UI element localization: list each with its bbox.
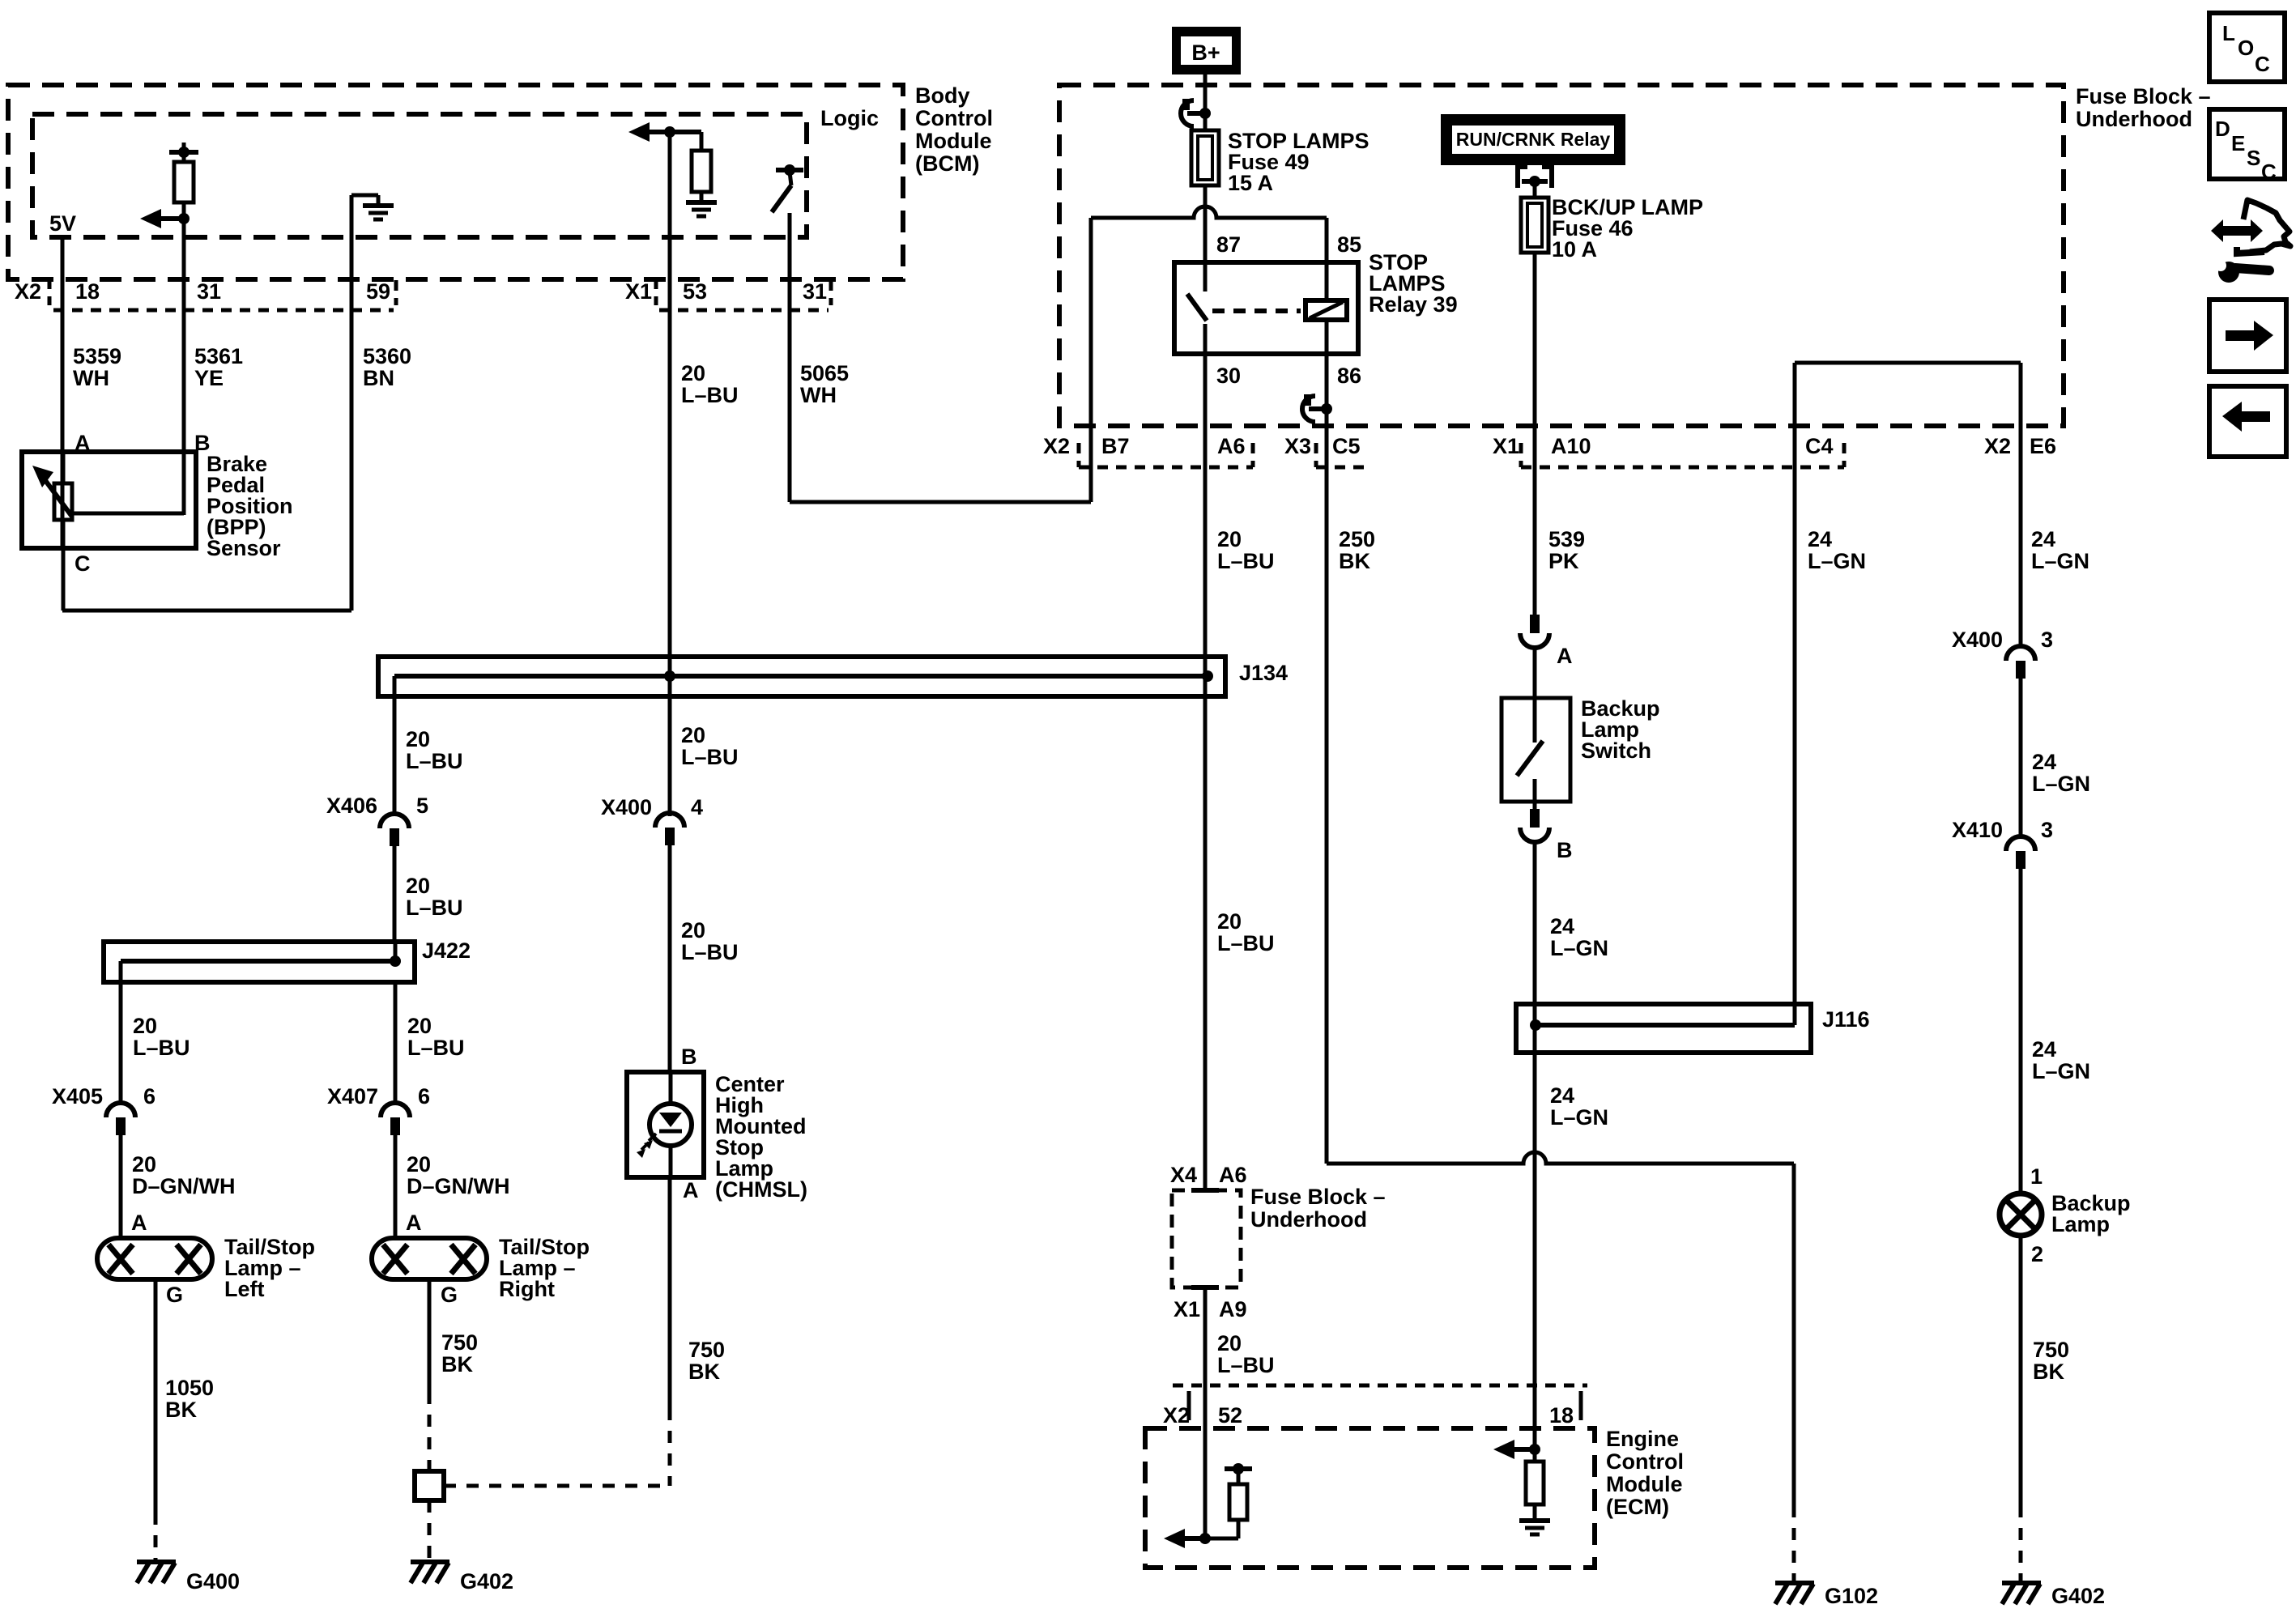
svg-text:BK: BK (165, 1398, 197, 1422)
svg-text:J134: J134 (1239, 661, 1288, 685)
svg-text:E: E (2231, 131, 2245, 155)
svg-text:C: C (2261, 160, 2277, 184)
svg-text:L–GN: L–GN (1550, 936, 1608, 960)
svg-text:X2: X2 (1043, 434, 1070, 458)
svg-text:A: A (1557, 644, 1573, 668)
svg-text:G102: G102 (1825, 1584, 1878, 1608)
svg-text:1050: 1050 (165, 1376, 214, 1400)
svg-text:5V: 5V (49, 211, 76, 236)
svg-text:X4: X4 (1170, 1163, 1197, 1187)
svg-text:24: 24 (2031, 527, 2055, 551)
svg-text:C: C (2255, 52, 2270, 76)
svg-text:L–BU: L–BU (1217, 931, 1275, 955)
svg-text:X400: X400 (1952, 628, 2003, 652)
svg-text:(CHMSL): (CHMSL) (715, 1177, 807, 1202)
svg-text:24: 24 (1550, 1083, 1574, 1108)
svg-text:D–GN/WH: D–GN/WH (132, 1174, 236, 1198)
svg-text:G400: G400 (186, 1569, 240, 1594)
svg-text:L–GN: L–GN (1808, 549, 1866, 573)
svg-text:X1: X1 (625, 279, 652, 304)
svg-text:A: A (131, 1211, 147, 1235)
svg-text:Module: Module (1606, 1472, 1683, 1496)
svg-text:24: 24 (1808, 527, 1832, 551)
svg-text:5359: 5359 (73, 344, 121, 368)
svg-text:24: 24 (2032, 1037, 2056, 1062)
svg-text:Lamp: Lamp (2051, 1212, 2110, 1236)
svg-text:24: 24 (1550, 914, 1574, 938)
svg-text:A6: A6 (1219, 1163, 1247, 1187)
svg-text:(BCM): (BCM) (915, 151, 979, 176)
svg-text:Right: Right (499, 1277, 555, 1301)
svg-text:X400: X400 (601, 795, 652, 819)
svg-text:24: 24 (2032, 750, 2056, 774)
svg-text:20: 20 (133, 1014, 157, 1038)
svg-text:A10: A10 (1551, 434, 1591, 458)
svg-text:BK: BK (688, 1360, 720, 1384)
svg-text:20: 20 (681, 361, 705, 385)
svg-text:L: L (2222, 21, 2235, 45)
svg-text:G: G (441, 1283, 458, 1307)
svg-text:20: 20 (1217, 527, 1242, 551)
svg-text:X410: X410 (1952, 818, 2003, 842)
svg-text:3: 3 (2041, 818, 2053, 842)
svg-text:Underhood: Underhood (1250, 1207, 1367, 1232)
svg-text:6: 6 (143, 1084, 155, 1108)
svg-text:BK: BK (441, 1352, 473, 1377)
svg-text:X2: X2 (1163, 1403, 1190, 1428)
svg-text:20: 20 (406, 874, 430, 898)
svg-text:BK: BK (2033, 1360, 2064, 1384)
svg-text:5065: 5065 (800, 361, 849, 385)
svg-text:BK: BK (1339, 549, 1370, 573)
svg-text:L–BU: L–BU (406, 749, 463, 773)
svg-text:3: 3 (2041, 628, 2053, 652)
svg-text:X1: X1 (1174, 1297, 1200, 1321)
svg-text:L–GN: L–GN (2032, 772, 2090, 796)
svg-text:YE: YE (194, 366, 224, 390)
svg-text:6: 6 (418, 1084, 430, 1108)
svg-text:750: 750 (2033, 1338, 2069, 1362)
svg-text:20: 20 (681, 723, 705, 747)
svg-text:5: 5 (416, 794, 428, 818)
svg-text:18: 18 (75, 279, 100, 304)
svg-text:31: 31 (197, 279, 221, 304)
svg-text:L–GN: L–GN (2031, 549, 2089, 573)
svg-text:WH: WH (800, 383, 837, 407)
svg-text:BN: BN (363, 366, 394, 390)
svg-text:J116: J116 (1822, 1007, 1870, 1032)
svg-text:85: 85 (1337, 232, 1361, 257)
svg-text:X406: X406 (326, 794, 377, 818)
svg-text:B: B (1557, 838, 1573, 862)
svg-text:750: 750 (688, 1338, 725, 1362)
svg-text:J422: J422 (422, 938, 471, 963)
svg-text:L–GN: L–GN (1550, 1105, 1608, 1130)
svg-text:L–BU: L–BU (681, 745, 739, 769)
svg-text:539: 539 (1548, 527, 1585, 551)
svg-text:52: 52 (1218, 1403, 1242, 1428)
svg-text:Fuse Block –: Fuse Block – (1250, 1185, 1386, 1209)
svg-text:53: 53 (683, 279, 707, 304)
svg-text:L–BU: L–BU (1217, 1353, 1275, 1377)
svg-text:A6: A6 (1217, 434, 1246, 458)
svg-text:Body: Body (915, 83, 970, 108)
svg-text:Underhood: Underhood (2076, 107, 2192, 131)
svg-text:X2: X2 (15, 279, 41, 304)
svg-text:O: O (2238, 36, 2254, 60)
svg-text:S: S (2247, 146, 2260, 170)
svg-text:L–GN: L–GN (2032, 1059, 2090, 1083)
svg-text:20: 20 (132, 1152, 156, 1177)
svg-text:20: 20 (1217, 1331, 1242, 1355)
svg-text:20: 20 (681, 918, 705, 943)
svg-text:L–BU: L–BU (1217, 549, 1275, 573)
svg-text:X405: X405 (52, 1084, 103, 1108)
svg-text:D: D (2215, 117, 2230, 141)
svg-text:G: G (166, 1283, 183, 1307)
svg-text:Switch: Switch (1581, 738, 1651, 763)
svg-text:10 A: 10 A (1552, 237, 1597, 262)
svg-text:A9: A9 (1219, 1297, 1247, 1321)
svg-text:20: 20 (406, 727, 430, 751)
svg-text:59: 59 (366, 279, 390, 304)
svg-text:Control: Control (915, 106, 993, 130)
svg-text:2: 2 (2031, 1242, 2043, 1266)
svg-text:PK: PK (1548, 549, 1579, 573)
svg-text:X3: X3 (1284, 434, 1311, 458)
svg-text:A: A (406, 1211, 422, 1235)
svg-text:31: 31 (803, 279, 827, 304)
svg-text:G402: G402 (2051, 1584, 2105, 1608)
svg-text:1: 1 (2030, 1164, 2043, 1189)
svg-text:Left: Left (224, 1277, 265, 1301)
svg-text:30: 30 (1216, 364, 1241, 388)
svg-text:Module: Module (915, 129, 992, 153)
svg-text:C5: C5 (1332, 434, 1361, 458)
svg-text:L–BU: L–BU (133, 1036, 190, 1060)
svg-text:B: B (681, 1045, 697, 1069)
svg-text:L–BU: L–BU (681, 383, 739, 407)
svg-text:(ECM): (ECM) (1606, 1495, 1669, 1519)
svg-text:250: 250 (1339, 527, 1375, 551)
svg-text:4: 4 (691, 795, 703, 819)
svg-text:86: 86 (1337, 364, 1361, 388)
svg-text:Relay 39: Relay 39 (1369, 292, 1458, 317)
svg-text:L–BU: L–BU (681, 940, 739, 964)
svg-text:A: A (683, 1178, 699, 1202)
svg-text:20: 20 (407, 1152, 431, 1177)
svg-text:X407: X407 (327, 1084, 378, 1108)
svg-text:C: C (75, 551, 91, 576)
svg-text:G402: G402 (460, 1569, 513, 1594)
svg-text:Control: Control (1606, 1449, 1684, 1474)
svg-text:750: 750 (441, 1330, 478, 1355)
svg-text:Engine: Engine (1606, 1427, 1679, 1451)
svg-text:B7: B7 (1101, 434, 1130, 458)
svg-text:E6: E6 (2030, 434, 2056, 458)
svg-text:18: 18 (1549, 1403, 1574, 1428)
svg-text:20: 20 (407, 1014, 432, 1038)
svg-text:Logic: Logic (820, 106, 879, 130)
svg-text:X1: X1 (1493, 434, 1519, 458)
svg-text:5360: 5360 (363, 344, 411, 368)
svg-text:15 A: 15 A (1228, 171, 1273, 195)
svg-text:Sensor: Sensor (207, 536, 281, 560)
svg-text:WH: WH (73, 366, 109, 390)
svg-text:Fuse Block –: Fuse Block – (2076, 84, 2211, 109)
svg-text:87: 87 (1216, 232, 1241, 257)
svg-text:L–BU: L–BU (406, 896, 463, 920)
svg-text:20: 20 (1217, 909, 1242, 934)
svg-text:X2: X2 (1984, 434, 2011, 458)
svg-text:D–GN/WH: D–GN/WH (407, 1174, 510, 1198)
svg-text:C4: C4 (1805, 434, 1834, 458)
svg-text:5361: 5361 (194, 344, 243, 368)
svg-text:L–BU: L–BU (407, 1036, 465, 1060)
svg-text:B+: B+ (1191, 40, 1220, 65)
svg-text:RUN/CRNK Relay: RUN/CRNK Relay (1456, 129, 1611, 150)
